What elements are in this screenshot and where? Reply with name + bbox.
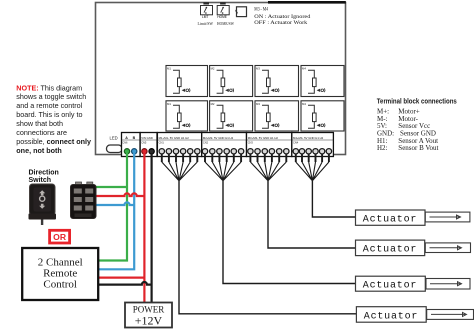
svg-text:CN4: CN4 [293, 140, 299, 144]
toggle switch S1 (photo) [29, 184, 57, 225]
svg-text:M1: M1 [167, 102, 171, 106]
wire M4 to actuator 1 [312, 181, 355, 217]
controller board outline [96, 2, 346, 154]
wire fan M4 group [296, 154, 329, 181]
svg-text:Actuator: Actuator [363, 245, 417, 256]
svg-text:Direction: Direction [29, 169, 59, 176]
svg-text:OR: OR [53, 232, 67, 242]
svg-text:M4: M4 [302, 102, 306, 106]
svg-text:LMT: LMT [202, 15, 208, 19]
actuator 4 box [356, 307, 473, 323]
svg-text:CN6: CN6 [122, 140, 128, 144]
terminal block CN-PWR [140, 133, 157, 157]
OR label box [50, 230, 70, 243]
svg-text:M3+M3- 5V GND H1 H2: M3+M3- 5V GND H1 H2 [248, 136, 279, 140]
wire fan M2 group [205, 154, 241, 181]
wire red branch to remote [98, 277, 144, 279]
svg-text:Actuator: Actuator [363, 280, 417, 291]
trimmer pot box M2 row2 [210, 101, 253, 131]
trimmer pot box M4 row2 [301, 101, 344, 131]
svg-text:M4+M4- 5V GND H1 H2: M4+M4- 5V GND H1 H2 [293, 136, 324, 140]
wire blue B to remote [98, 153, 134, 269]
terminal block CN-AB [122, 133, 141, 157]
wire red branch to switch (humps over green and blue) [93, 193, 144, 196]
terminal VIN (red) [142, 149, 147, 154]
trimmer pot box M2 row1 [210, 66, 253, 97]
terminal block CN1 (M1) [157, 133, 201, 157]
svg-text:CN2: CN2 [203, 140, 209, 144]
terminal block CN3 (M3) [247, 133, 292, 157]
svg-text:NOTE: This diagram: NOTE: This diagram [16, 83, 82, 92]
trimmer pot box M3 row2 [255, 101, 299, 131]
svg-text:M3 - M4: M3 - M4 [254, 7, 268, 12]
svg-text:Terminal block connections: Terminal block connections [377, 97, 457, 106]
home switch SW2 [217, 2, 235, 26]
svg-text:B: B [133, 136, 136, 140]
svg-text:M2: M2 [211, 102, 215, 106]
svg-text:CN1: CN1 [159, 140, 165, 144]
trimmer pot box M4 row1 [301, 66, 344, 97]
svg-text:+12V: +12V [135, 314, 163, 328]
wire green A to remote [98, 153, 127, 261]
wire black GND to power [151, 153, 153, 303]
trimmer pot box M1 row1 [166, 66, 208, 97]
actuator 1 box [356, 210, 470, 225]
limit switch SW1 [198, 2, 214, 26]
wire black branch to remote (hump over red) [98, 282, 152, 285]
terminal GND (black) [149, 149, 154, 154]
svg-text:shows a toggle switch: shows a toggle switch [16, 92, 86, 101]
wire blue branch to switch (hump over green) [93, 202, 134, 205]
svg-text:Control: Control [43, 278, 77, 290]
wire fan M3 group [250, 154, 286, 181]
svg-text:and a remote control: and a remote control [16, 101, 82, 110]
remote control box [22, 248, 98, 300]
svg-text:Switch: Switch [29, 177, 52, 184]
wire M1 to actuator 4 [179, 181, 356, 314]
svg-text:CN5: CN5 [141, 140, 147, 144]
dpdt switch S2 (photo) [71, 182, 97, 219]
svg-text:M3: M3 [256, 102, 260, 106]
wire M3 to actuator 2 [268, 181, 356, 248]
svg-text:M2: M2 [211, 67, 215, 71]
svg-text:Sensor B Vout: Sensor B Vout [398, 144, 438, 152]
actuator 3 box [356, 276, 471, 291]
connector J1 [236, 7, 247, 17]
terminal block CN4 (M4) [292, 133, 334, 157]
svg-text:CN3: CN3 [248, 140, 254, 144]
note paragraph [16, 83, 91, 155]
svg-text:M2+M2- 5V GND H1 H2: M2+M2- 5V GND H1 H2 [203, 136, 234, 140]
trimmer pot box M3 row1 [255, 66, 299, 97]
wire M2 to actuator 3 [223, 181, 356, 284]
svg-text:M3: M3 [256, 67, 260, 71]
wire green branch to switch [93, 186, 127, 188]
trimmer pot box M1 row2 [166, 101, 208, 131]
svg-text:Actuator: Actuator [364, 311, 418, 322]
svg-text:Limit/SW: Limit/SW [198, 21, 214, 26]
svg-text:LED: LED [110, 136, 118, 141]
note text M3-M4 [254, 7, 310, 26]
terminal B (blue) [132, 149, 137, 154]
wire fan M1 group [162, 154, 198, 181]
svg-text:HOME: HOME [217, 15, 227, 19]
svg-text:VIN GND: VIN GND [141, 136, 153, 140]
svg-text:HOME/SW: HOME/SW [217, 21, 235, 26]
direction switch label [29, 169, 59, 184]
LED indicator [107, 136, 123, 153]
svg-text:possible, connect only: possible, connect only [16, 137, 91, 146]
svg-text:one, not both: one, not both [16, 146, 62, 155]
svg-text:board. This is only to: board. This is only to [16, 110, 82, 119]
svg-text:show that both: show that both [16, 119, 63, 128]
svg-text:OFF : Actuator Work: OFF : Actuator Work [254, 20, 307, 26]
svg-text:A: A [125, 136, 128, 140]
wire red VIN to power [143, 153, 145, 303]
terminal A (green) [124, 149, 129, 154]
terminal legend rows [377, 107, 439, 152]
terminal block CN2 (M2) [202, 133, 247, 157]
svg-text:connections are: connections are [16, 128, 67, 137]
svg-text:M1+M1- 5V GND H1 H2: M1+M1- 5V GND H1 H2 [159, 136, 190, 140]
svg-text:H2:: H2: [377, 144, 388, 152]
svg-text:M1: M1 [167, 67, 171, 71]
power supply box [125, 303, 172, 328]
actuator 2 box [356, 240, 471, 256]
svg-text:M4: M4 [302, 67, 306, 71]
svg-text:Actuator: Actuator [363, 214, 417, 225]
